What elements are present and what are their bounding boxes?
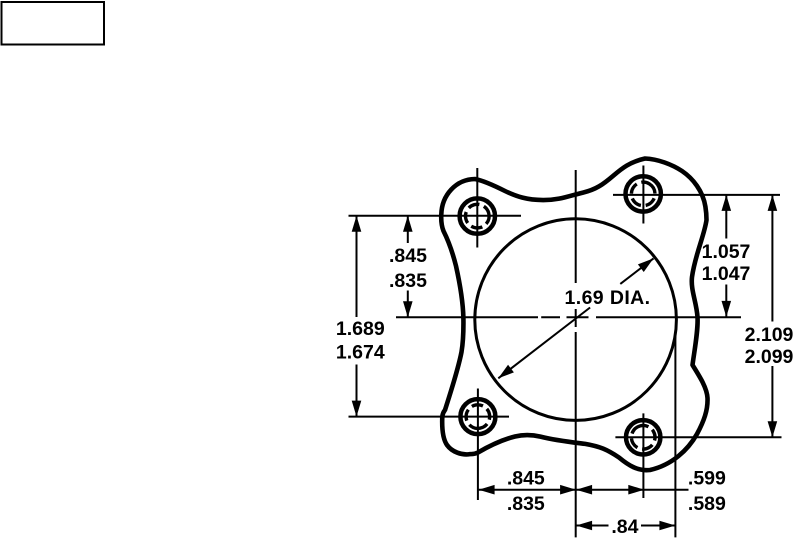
horizontal centerline of flange (396, 316, 741, 318)
arrow lower 1.69 DIA (495, 365, 514, 382)
arrow down 1.689 (352, 401, 362, 417)
svg-text:2.109: 2.109 (745, 324, 794, 346)
hole BL outer circle (460, 399, 495, 434)
arrow right .599 (628, 485, 644, 495)
dimension 1.057/1.047 line (725, 195, 727, 317)
hole TL inner dashed circle (463, 202, 492, 231)
hole BR outer circle (626, 420, 660, 454)
svg-text:.835: .835 (507, 493, 545, 515)
svg-text:.84: .84 (611, 516, 638, 538)
arrow upper 1.69 DIA (638, 255, 657, 272)
arrow down .845 (403, 301, 413, 317)
svg-text:1.689: 1.689 (336, 318, 385, 340)
hole TR horizontal centerline (613, 194, 780, 196)
hole TR inner dashed circle (627, 178, 660, 211)
extension line for .84 (circle right edge) (674, 335, 676, 537)
hole TL outer circle (460, 198, 495, 233)
hole BL horizontal centerline (349, 416, 510, 418)
arrow down 1.057 (722, 301, 732, 317)
leader line 1.69 DIA upper segment (620, 258, 653, 284)
dimension 2.109/2.099 line (771, 195, 773, 437)
hole BR inner dashed circle (627, 421, 659, 453)
hole TL horizontal centerline (349, 215, 522, 217)
dimension .845/.835 bottom line (479, 489, 576, 491)
svg-text:1.69 DIA.: 1.69 DIA. (565, 287, 651, 309)
arrow left .84 (576, 521, 592, 531)
hole BL inner dashed circle (464, 403, 491, 430)
svg-text:.599: .599 (688, 468, 726, 490)
arrow up .845 (403, 216, 413, 232)
arrow left bottom .845 (479, 485, 495, 495)
dimension .84 line (576, 525, 675, 527)
svg-text:1.674: 1.674 (336, 342, 385, 364)
svg-text:.845: .845 (507, 468, 545, 490)
hole BL vertical centerline (477, 389, 479, 501)
central bore circle (1.69 DIA) (475, 219, 677, 421)
dimension 1.689/1.674 line (356, 216, 358, 416)
hole TR outer circle (626, 176, 661, 211)
flange gasket outline (441, 159, 707, 471)
dimension .845/.835 left line (407, 216, 409, 317)
hole BR vertical centerline (642, 413, 644, 498)
figure label box (empty rectangle, top-left) (2, 2, 105, 45)
arrow right bottom .845 (560, 485, 576, 495)
svg-text:1.047: 1.047 (702, 263, 751, 285)
svg-text:.589: .589 (688, 493, 726, 515)
arrow left .599 (576, 485, 592, 495)
vertical centerline of flange (575, 170, 577, 537)
arrow up 1.689 (352, 216, 362, 232)
hole BR horizontal centerline (615, 436, 781, 438)
leader line 1.69 DIA lower segment (498, 308, 590, 379)
dimension .599/.589 line (576, 489, 688, 491)
hole TR vertical centerline (642, 166, 644, 224)
arrow down 2.109 (768, 421, 778, 437)
svg-text:1.057: 1.057 (702, 241, 751, 263)
arrow right .84 (659, 521, 675, 531)
svg-text:2.099: 2.099 (745, 346, 794, 368)
svg-text:.845: .845 (389, 245, 427, 267)
arrow up 2.109 (768, 195, 778, 211)
arrow up 1.057 (722, 195, 732, 211)
svg-text:.835: .835 (389, 270, 427, 292)
hole TL vertical centerline (476, 168, 478, 248)
